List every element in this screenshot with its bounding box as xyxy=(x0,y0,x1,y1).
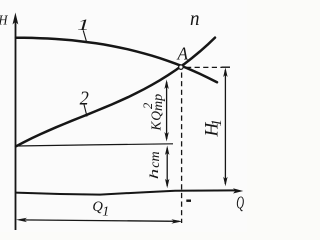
curve 2 label leader tick xyxy=(84,105,87,117)
dashed horizontal line from point A to H1 arrow xyxy=(186,66,222,68)
KQ^2_tr dimension arrow (between curve 2 and h_st line) xyxy=(164,80,168,142)
svg-text:KQ: KQ xyxy=(148,111,163,132)
h_st horizontal line (static head level) xyxy=(16,144,173,146)
svg-text:n: n xyxy=(190,8,200,30)
curve 2 (system characteristic) xyxy=(16,38,215,147)
h_st dimension arrow (between h_st line and Q axis) xyxy=(165,146,169,189)
H1 label (rotated) xyxy=(201,119,225,138)
svg-text:2: 2 xyxy=(80,88,89,110)
svg-text:ст: ст xyxy=(148,151,163,167)
svg-text:1: 1 xyxy=(209,119,225,127)
H axis (vertical) xyxy=(15,17,17,230)
top cap tick at H1 arrow xyxy=(222,66,231,68)
svg-text:1: 1 xyxy=(77,17,90,34)
dashed vertical line from point A to below Q axis xyxy=(181,73,183,224)
svg-text:H: H xyxy=(0,14,8,29)
svg-text:A: A xyxy=(177,43,189,63)
h_st label (rotated) xyxy=(146,151,163,179)
H1 dimension arrow (total head at operating point) xyxy=(223,68,227,187)
minus tick below axis right of dashed line xyxy=(186,199,191,201)
svg-text:Q: Q xyxy=(236,193,244,213)
H axis arrowhead xyxy=(13,13,19,25)
curve 1 label leader tick xyxy=(83,30,86,41)
Q1 dimension arrow (along bottom) xyxy=(16,218,182,224)
KQ^2_tr label (rotated) xyxy=(141,94,166,132)
operating point A (open circle) xyxy=(179,65,184,70)
Q axis (horizontal) xyxy=(16,190,237,194)
svg-text:тр: тр xyxy=(151,94,166,111)
svg-text:1: 1 xyxy=(102,205,109,220)
Q axis arrowhead xyxy=(233,188,243,193)
curve 1 (pump characteristic) xyxy=(16,38,217,83)
svg-text:h: h xyxy=(146,169,161,180)
